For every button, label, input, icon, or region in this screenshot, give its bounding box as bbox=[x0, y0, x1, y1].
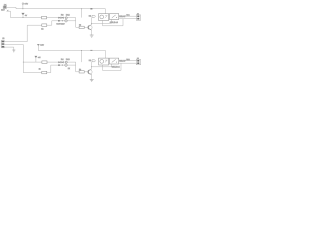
svg-text:K1: K1 bbox=[89, 15, 91, 18]
transistor Q2 bbox=[88, 69, 92, 75]
wire input feed channel 1 bbox=[7, 11, 11, 17]
svg-text:G5LE-14: G5LE-14 bbox=[112, 66, 121, 69]
wire emitter channel 1 bbox=[91, 30, 93, 35]
junction on VCC rail bbox=[81, 8, 82, 9]
svg-text:K2: K2 bbox=[89, 59, 91, 62]
resistor R5 (base resistor channel 1) bbox=[79, 26, 84, 28]
resistor R5b (base resistor channel 2) bbox=[79, 71, 84, 73]
relay K1 contact box bbox=[109, 14, 118, 20]
wire base lead bbox=[76, 26, 89, 28]
wire opto row B channel 2 bbox=[51, 64, 76, 66]
svg-text:BZT: BZT bbox=[1, 9, 5, 12]
wire lower rail channel 1 bbox=[27, 21, 52, 25]
LED indicator circle bbox=[65, 17, 67, 19]
wire bus channel 2 bbox=[23, 61, 75, 63]
svg-text:U2 PC817: U2 PC817 bbox=[56, 22, 64, 25]
wire J3 pin1 row bbox=[5, 41, 28, 43]
transistor Q1 bbox=[88, 25, 92, 31]
diode D5 bbox=[58, 61, 60, 63]
net label OUT1 bbox=[89, 15, 96, 18]
wire to connector J4 pin 2 bbox=[119, 62, 138, 64]
resistor R1b (series on bus 2) bbox=[42, 61, 47, 64]
resistor R2b (lower rail channel 2) bbox=[42, 71, 47, 74]
diode D6 bbox=[62, 61, 64, 63]
wire relay1 contact return bbox=[103, 19, 124, 26]
diode D4 bbox=[62, 17, 64, 19]
svg-text:G5LE-14: G5LE-14 bbox=[110, 21, 119, 24]
svg-text:RELAY: RELAY bbox=[119, 60, 126, 63]
wire feed to channel 2 bbox=[22, 45, 24, 73]
power flag +5V bbox=[22, 2, 28, 8]
ground arrow on bus 2 bbox=[35, 56, 42, 62]
ground GND2 bbox=[90, 80, 94, 82]
connector J4 bbox=[136, 57, 140, 65]
wire opto output down to base resistor channel 2 bbox=[75, 62, 77, 72]
wire bus channel 1 bbox=[11, 17, 76, 19]
ground GND3 bbox=[12, 47, 15, 52]
wire opto row B channel 1 bbox=[52, 20, 76, 22]
svg-text:+5V: +5V bbox=[38, 56, 42, 59]
power flag +12V channel 2 bbox=[37, 44, 45, 51]
ground arrow on bus 1 bbox=[21, 13, 24, 18]
opto row B marks channel 2 bbox=[58, 64, 70, 70]
wire relay2 coil bottom bbox=[92, 64, 112, 70]
net label OUT2 bbox=[89, 59, 96, 62]
junction blob on VCC rail 1 bbox=[90, 8, 92, 9]
wire relay1 coil top feed bbox=[104, 9, 106, 14]
junction node A bbox=[22, 8, 23, 9]
diode D1 (top-left input device) bbox=[1, 3, 8, 11]
svg-text:1k: 1k bbox=[68, 67, 70, 70]
wire opto output down to base resistor channel 1 bbox=[75, 18, 77, 28]
wire collector channel 1 bbox=[91, 17, 93, 24]
ground GND1 bbox=[90, 35, 94, 37]
relay K2 coil box bbox=[99, 58, 109, 65]
svg-text:RELAY: RELAY bbox=[119, 15, 126, 18]
junction blob on VCC rail 2 bbox=[90, 50, 92, 51]
svg-text:J2: J2 bbox=[137, 13, 139, 16]
wire emitter channel 2 bbox=[91, 75, 93, 80]
relay K2 contact box bbox=[109, 58, 118, 64]
wire base lead channel 2 bbox=[76, 71, 89, 73]
connector J2 bbox=[136, 13, 140, 21]
connector J3 (3-pin input header) bbox=[1, 37, 5, 48]
svg-text:D13: D13 bbox=[66, 58, 71, 61]
svg-text:J4: J4 bbox=[137, 57, 139, 60]
wire VCC rail channel 1 bbox=[7, 7, 106, 8]
resistor R2 (lower rail channel 1) bbox=[42, 24, 47, 27]
wire VCC rail channel 2 bbox=[38, 50, 105, 52]
svg-text:R4: R4 bbox=[61, 58, 64, 61]
LED indicator circle channel 2 bbox=[65, 61, 67, 63]
relay K1 coil box bbox=[99, 14, 109, 21]
svg-text:J3: J3 bbox=[2, 37, 5, 40]
wire lower rail channel 2 bbox=[23, 65, 51, 73]
wire to connector J2 pin 2 bbox=[119, 18, 138, 20]
svg-text:0V: 0V bbox=[25, 14, 28, 17]
wire to connector J4 pin 1 bbox=[119, 60, 138, 62]
wire relay2 coil top feed bbox=[105, 51, 107, 59]
wire collector channel 2 bbox=[91, 62, 93, 69]
wire from input row 1 up to lower rail bbox=[26, 25, 28, 42]
wire relay2 contact return bbox=[103, 63, 122, 70]
svg-text:+5V: +5V bbox=[24, 2, 28, 5]
wire branch to bus channel 2 bbox=[80, 51, 82, 63]
wire to connector J2 pin 1 bbox=[119, 15, 138, 17]
wire relay1 coil bottom bbox=[92, 20, 112, 26]
svg-text:+12V: +12V bbox=[40, 44, 45, 47]
svg-text:R3: R3 bbox=[61, 13, 64, 16]
opto row B marks channel 1 bbox=[56, 20, 67, 26]
wire branch to bus channel 1 bbox=[81, 9, 83, 18]
wire J3 pin3 row bbox=[5, 46, 14, 48]
wire J3 pin2 row bbox=[5, 44, 24, 46]
svg-text:NO2: NO2 bbox=[126, 58, 129, 61]
diode D3 bbox=[58, 17, 60, 19]
resistor R1 (series on bus 1) bbox=[42, 16, 47, 19]
svg-text:1k: 1k bbox=[39, 67, 41, 70]
svg-text:D12: D12 bbox=[66, 13, 71, 16]
svg-text:1k: 1k bbox=[41, 28, 43, 31]
opto-LED cluster channel 2 bbox=[58, 58, 70, 63]
svg-text:NO1: NO1 bbox=[126, 14, 129, 17]
opto-LED cluster channel 1 bbox=[58, 13, 70, 18]
